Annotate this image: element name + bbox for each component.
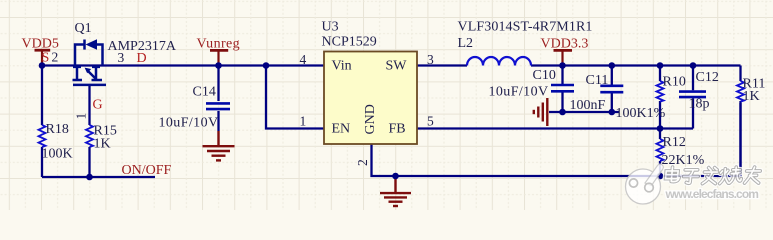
svg-text:Vunreg: Vunreg bbox=[197, 37, 241, 52]
wire L2 to R11 top rail bbox=[531, 64, 741, 66]
svg-text:G: G bbox=[93, 98, 103, 113]
power port VDD3.3 bbox=[554, 50, 573, 65]
svg-text:1: 1 bbox=[74, 113, 89, 120]
power port VDD5 bbox=[35, 50, 51, 65]
svg-text:2: 2 bbox=[355, 159, 370, 166]
Q1 substrate arrow head bbox=[85, 68, 92, 74]
svg-text:EN: EN bbox=[332, 122, 351, 137]
node gate/ON-OFF junction bbox=[86, 174, 93, 181]
svg-text:10uF/10V: 10uF/10V bbox=[159, 116, 219, 131]
node C10 top junction bbox=[559, 62, 566, 69]
svg-text:VLF3014ST-4R7M1R1: VLF3014ST-4R7M1R1 bbox=[458, 20, 593, 35]
capacitor C12 bbox=[679, 92, 706, 98]
svg-text:10uF/10V: 10uF/10V bbox=[489, 85, 549, 100]
svg-text:100K: 100K bbox=[42, 147, 73, 162]
capacitor C10 bbox=[551, 85, 574, 91]
svg-text:18p: 18p bbox=[689, 97, 710, 112]
capacitor C14 bbox=[206, 103, 230, 109]
svg-text:ON/OFF: ON/OFF bbox=[122, 163, 172, 178]
svg-text:22K1%: 22K1% bbox=[662, 153, 705, 168]
wire C10 drop bbox=[561, 66, 563, 113]
resistor R18 bbox=[39, 125, 46, 147]
node EN junction bbox=[263, 62, 270, 69]
resistor R10 bbox=[657, 81, 664, 102]
svg-text:VDD3.3: VDD3.3 bbox=[541, 37, 589, 52]
wire EN branch bbox=[266, 66, 324, 129]
wire C11 drop bbox=[611, 66, 613, 113]
wire C12 drop bbox=[692, 66, 694, 129]
svg-text:NCP1529: NCP1529 bbox=[322, 35, 377, 50]
svg-text:C11: C11 bbox=[586, 73, 609, 88]
watermark text 电子发烧友 (drawn strokes) bbox=[665, 167, 760, 184]
node S junction bbox=[39, 62, 46, 69]
svg-text:3: 3 bbox=[427, 52, 434, 67]
wire gate of Q1 down through R15 bbox=[88, 85, 90, 177]
svg-text:SW: SW bbox=[386, 59, 408, 74]
Q1 body diode triangle bbox=[86, 39, 98, 49]
svg-text:5: 5 bbox=[427, 114, 434, 129]
svg-text:100nF: 100nF bbox=[570, 98, 606, 113]
svg-text:4: 4 bbox=[300, 52, 307, 67]
capacitor C11 bbox=[600, 86, 623, 92]
wire ON/OFF stub bbox=[42, 176, 155, 178]
ground below C14 bbox=[203, 131, 235, 160]
svg-text:C10: C10 bbox=[533, 68, 556, 83]
svg-text:L2: L2 bbox=[458, 36, 474, 51]
svg-text:2: 2 bbox=[52, 50, 59, 65]
svg-text:FB: FB bbox=[389, 122, 406, 137]
svg-text:1K: 1K bbox=[743, 89, 760, 104]
node R12 bottom junction bbox=[657, 173, 664, 180]
op-amp U3 NCP1529 body bbox=[324, 52, 417, 145]
ground below U3 pin2 bbox=[380, 177, 411, 207]
wire Vunreg / C14 drop bbox=[217, 66, 219, 132]
svg-text:U3: U3 bbox=[322, 20, 339, 35]
node Vunreg junction bbox=[215, 62, 222, 69]
svg-text:3: 3 bbox=[118, 50, 125, 65]
svg-text:R12: R12 bbox=[663, 135, 686, 150]
node C12 top junction bbox=[690, 62, 697, 69]
wire left vertical VDD5 to ON/OFF through R18 bbox=[41, 66, 43, 178]
power port Vunreg bbox=[210, 50, 228, 65]
wire R11 leads bbox=[739, 66, 741, 177]
wire FB line pin5 to C12 bbox=[417, 127, 693, 129]
node C11 bottom junction bbox=[609, 109, 616, 116]
svg-text:1K: 1K bbox=[94, 137, 111, 152]
node FB junction bbox=[657, 125, 664, 132]
node GND rail junction bbox=[392, 173, 399, 180]
resistor R11 bbox=[737, 81, 744, 102]
wire R12 leads bbox=[659, 129, 661, 177]
svg-text:D: D bbox=[137, 51, 147, 66]
wire R10 leads bbox=[659, 66, 661, 129]
svg-text:C14: C14 bbox=[193, 85, 216, 100]
node C11 top junction bbox=[609, 62, 616, 69]
svg-text:R18: R18 bbox=[46, 122, 69, 137]
transistor Q1 P-MOSFET body bbox=[73, 40, 107, 85]
svg-text:100K1%: 100K1% bbox=[616, 106, 666, 121]
svg-text:C12: C12 bbox=[696, 70, 719, 85]
wire pin2 down and bottom ground rail bbox=[372, 103, 741, 176]
resistor R12 bbox=[657, 139, 664, 161]
wire U3 pin3 to L2 bbox=[417, 64, 467, 66]
analog ground left of C10 bbox=[534, 98, 548, 126]
node C10 bottom junction bbox=[559, 109, 566, 116]
svg-text:Q1: Q1 bbox=[75, 21, 92, 36]
wire caps bottom to analog ground bbox=[549, 111, 619, 113]
svg-text:GND: GND bbox=[363, 104, 378, 134]
node R10 top junction bbox=[657, 62, 664, 69]
svg-text:1: 1 bbox=[300, 114, 307, 129]
svg-text:www.elecfans.com: www.elecfans.com bbox=[665, 187, 759, 201]
svg-text:Vin: Vin bbox=[332, 59, 352, 74]
svg-text:R10: R10 bbox=[663, 75, 686, 90]
inductor L2 bbox=[467, 57, 531, 66]
resistor R15 bbox=[86, 125, 93, 147]
watermark logo (hand in circle) bbox=[626, 164, 664, 204]
wire main horizontal rail S-D to U3 pin4 bbox=[42, 64, 324, 66]
